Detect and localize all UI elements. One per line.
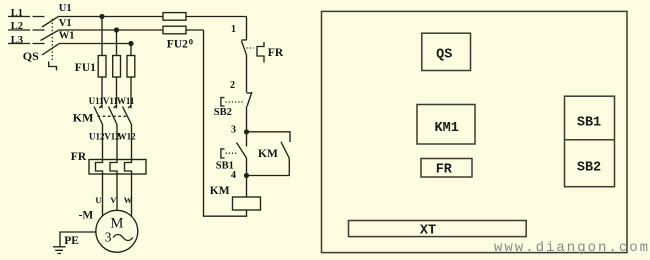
wire KM aux branch top [247,132,291,142]
wire U1 (L1 to FU2a) [58,16,163,18]
thermal relay FR trip symbol [257,42,264,63]
layout QS box [422,33,471,70]
wire FU2a to corner node 1 [186,16,247,18]
contactor KM main blade pole1 [94,107,103,125]
layout KM1 box [417,105,475,145]
pushbutton SB2 blade [247,92,252,107]
switch QS blade pole2 [41,30,59,40]
svg-text:KM: KM [73,111,94,125]
contactor KM main blade pole3 [123,107,132,125]
svg-text:FU1: FU1 [75,62,96,74]
layout SB group box [565,96,615,187]
svg-text:W1: W1 [59,30,75,41]
junction node 3 [244,129,249,134]
junction L2 tap [114,27,119,32]
svg-text:KM: KM [258,148,278,160]
svg-text:W: W [124,195,133,205]
wire node1 drop from L1 [246,17,248,40]
wire FU1 pole2 to KM contact [116,77,118,105]
wire FU2b to left control rail [186,29,204,31]
contactor KM linkage dashed [98,115,128,117]
wire SB2 to node 3 [246,107,248,132]
coil KM rectangle [233,197,261,210]
wire L2 left segments [8,29,45,31]
thermal contact FR blade [241,41,246,53]
svg-text:3: 3 [231,124,236,135]
fuse FU2 lower [163,26,186,34]
svg-text:4: 4 [231,170,236,181]
thermal relay FR heater pole2 [110,160,117,175]
wire L2 tap down to FU1 [116,30,118,56]
switch QS blade pole3 [42,44,59,55]
ground PE symbol [53,247,66,254]
junction L1 tap [99,14,104,19]
pushbutton SB2 tick [247,92,252,94]
contactor KM main contact hook pole2 [114,105,117,109]
svg-text:SB2: SB2 [577,161,601,176]
wire KM pole3 to FR [131,125,133,160]
svg-text:QS: QS [23,49,39,63]
fuse FU1 pole1 [98,56,106,78]
layout SB divider [565,139,615,141]
contactor KM aux blade [281,142,289,159]
pushbutton SB2 dotted link [226,101,245,103]
svg-text:W12: W12 [118,132,137,142]
svg-text:M: M [111,216,124,232]
wire FR pole3 to motor [131,174,133,216]
svg-text:FU2: FU2 [167,39,188,51]
pushbutton SB2 cap [221,98,225,106]
switch QS linkage dotted [51,19,53,62]
svg-text:U: U [95,195,101,205]
fuse FU1 pole3 [127,56,135,78]
fuse FU1 pole2 [113,56,121,78]
svg-text:W11: W11 [117,96,135,106]
svg-text:V1: V1 [59,18,72,29]
pushbutton SB1 cap [221,149,225,158]
svg-text:SB2: SB2 [214,107,232,118]
contactor KM main contact hook pole1 [99,105,102,109]
svg-text:QS: QS [436,47,452,62]
layout board outer frame [322,11,628,252]
svg-text:2: 2 [230,80,235,91]
wire L1 left segments [8,16,45,18]
wire KM aux branch bottom [247,158,290,175]
junction L3 tap [128,41,133,46]
svg-text:1: 1 [231,24,236,35]
contactor KM main blade pole2 [109,107,118,125]
wire V1 (L2 to FU2b) [59,29,164,31]
pushbutton SB1 dotted link [226,152,238,154]
wire SB1 to node 4 [246,158,248,176]
wire L1 tap down to FU1 [101,17,103,56]
svg-text:-M: -M [79,210,94,222]
svg-text:XT: XT [420,224,436,239]
wire coil to return rail [204,30,247,216]
wire node3 to SB1 [246,132,248,147]
svg-text:www.diangon.com: www.diangon.com [494,240,650,256]
wire FU1 pole3 to KM contact [130,77,132,105]
wire FR pole1 to motor [102,174,104,216]
svg-text:U11: U11 [89,96,105,106]
thermal contact FR dotted link [247,47,254,49]
motor M1 circle [96,210,138,252]
switch QS blade pole1 [42,17,58,27]
svg-text:V: V [110,195,117,205]
thermal contact FR tick [241,39,246,41]
wire FR contact to SB2 [245,53,248,92]
fuse FU2 upper [163,13,186,21]
svg-text:KM: KM [210,185,230,197]
wire KM pole2 to FR [116,125,118,160]
svg-text:3: 3 [105,230,112,245]
wire KM pole1 to FR [102,125,104,160]
svg-text:U1: U1 [59,3,72,14]
motor tilde symbol [113,235,133,241]
svg-text:0: 0 [189,36,193,46]
svg-text:SB1: SB1 [577,116,601,131]
wire PE to motor [60,232,96,247]
contactor KM main contact hook pole3 [128,105,131,109]
wire FR pole2 to motor [116,174,118,210]
svg-text:PE: PE [64,235,79,247]
pushbutton SB1 blade [237,143,247,159]
switch QS handle [49,62,57,71]
wire FU1 pole1 to KM contact [101,77,103,105]
thermal relay FR box [89,160,146,175]
wire L3 left segments [8,43,45,45]
wire node4 to coil [246,176,248,198]
thermal relay FR heater pole3 [125,160,132,175]
wire L3 tap down to FU1 [130,44,132,56]
svg-text:FR: FR [436,162,453,177]
svg-text:FR: FR [268,47,284,59]
layout FR box [421,159,472,178]
wire W1 (L3 to fuse tap) [59,43,131,45]
thermal relay FR heater pole1 [96,160,103,175]
layout XT box [349,221,527,237]
svg-text:KM1: KM1 [435,121,459,136]
svg-text:FR: FR [71,151,87,163]
junction node 4 [244,173,249,178]
